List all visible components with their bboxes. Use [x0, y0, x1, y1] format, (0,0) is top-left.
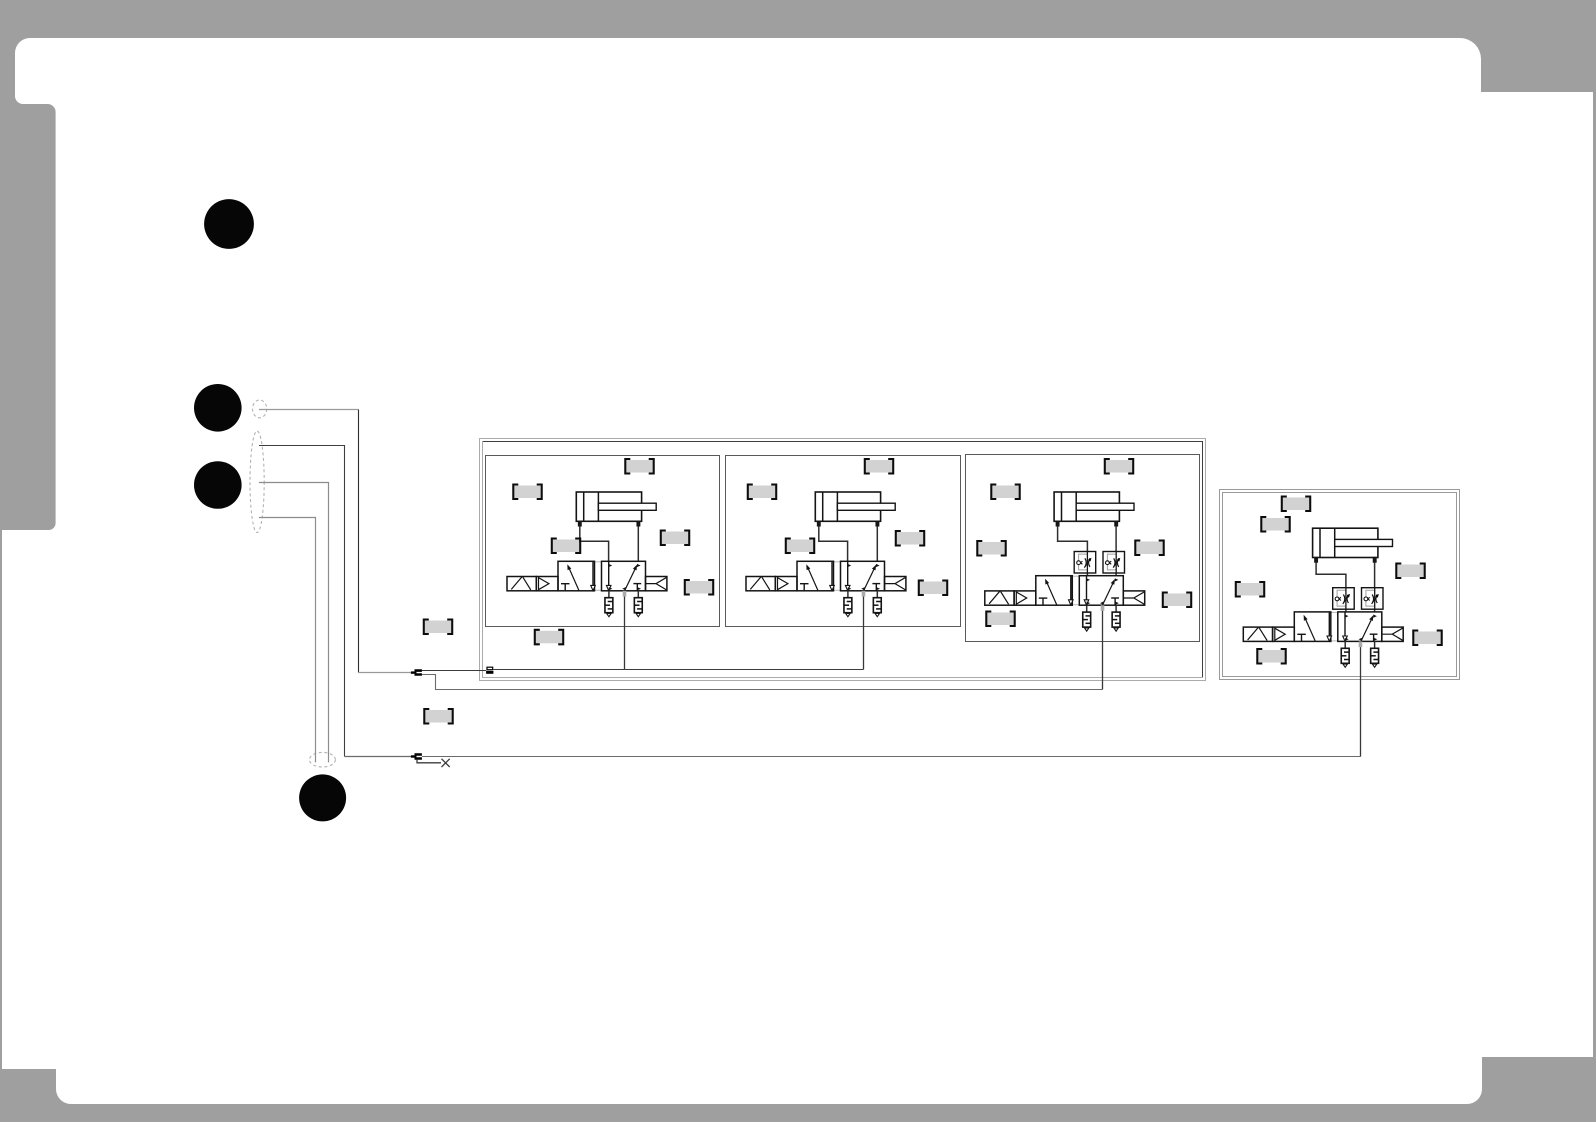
solenoid coil of valve 1 [507, 577, 536, 591]
wire: valve 3 port 5 to silencer [1086, 605, 1088, 612]
label placeholder 1.1 [625, 459, 653, 474]
label placeholder (left of enclosure, lower) [424, 709, 452, 724]
label placeholder 1.5 [685, 580, 713, 595]
connector 1 (coupling) [411, 669, 422, 676]
station box 1 [486, 456, 720, 627]
solenoid coil of valve 2 [746, 577, 775, 591]
label placeholder 1.2 [513, 485, 541, 500]
balloon marker 2 [194, 384, 242, 432]
pilot of valve 1 [536, 577, 558, 591]
supply port stub of valve 3 [1101, 605, 1105, 611]
outer enclosure frame (circuits 1-3), double border outer [480, 439, 1206, 681]
wire: valve 4 port 3 to silencer [1374, 641, 1376, 648]
label placeholder 2.4 [896, 531, 924, 546]
wire: valve 1 port 1 supply drop [624, 597, 626, 670]
one-way flow control valve 3b [1103, 552, 1125, 574]
silencer 1a [605, 598, 613, 617]
wire: valve 3 port 3 to silencer [1115, 605, 1117, 612]
label placeholder 2.1 [865, 459, 893, 474]
silencer 4a [1341, 648, 1349, 667]
wire: cylinder 2 left port to valve port 4 [819, 526, 848, 561]
wire: cylinder 3 left port to valve port 4 [1058, 526, 1088, 576]
return spring of valve 2 [885, 577, 906, 591]
outer enclosure frame (circuits 1-3), double border inner [482, 441, 1203, 678]
wire: cylinder 4 left port to valve port 4 [1316, 562, 1346, 612]
wire: valve 2 port 1 supply drop [863, 597, 865, 670]
enclosure frame (circuit 4), double border outer [1220, 490, 1460, 680]
label placeholder 1.4 [661, 531, 689, 546]
cylinder 2 (double-acting) [815, 492, 895, 526]
label placeholder 1.6 [535, 630, 563, 645]
station box 2 [726, 456, 961, 627]
dashed highlight ellipse (cable bundle, bottom) [309, 752, 335, 767]
label placeholder 3.2 [991, 485, 1019, 500]
wire: valve 2 port 3 to silencer [876, 591, 878, 598]
connector 3 (coupling) [411, 753, 422, 760]
wire: branch from connector 1 to circuit 3 supply [422, 675, 1103, 690]
wire: port A to connector 1 [259, 410, 411, 673]
cylinder 3 (double-acting) [1054, 492, 1134, 526]
wire: cylinder 1 left port to valve port 4 [580, 526, 609, 561]
label placeholder 4.5 [1413, 631, 1441, 646]
pilot of valve 4 [1273, 627, 1295, 641]
cylinder 4 (double-acting) [1313, 528, 1393, 562]
station box 3 [966, 455, 1200, 642]
label placeholder 1.3 [552, 539, 580, 554]
wire: valve 1 port 3 to silencer [637, 591, 639, 598]
wire: connector 3 bus to circuit 4 supply [422, 756, 1361, 758]
pilot of valve 3 [1014, 591, 1036, 605]
silencer 3a [1083, 612, 1091, 631]
label placeholder 3.6 [986, 612, 1014, 627]
label placeholder 4.2 [1261, 517, 1289, 532]
label placeholder 2.5 [919, 581, 947, 596]
silencer 3b [1112, 612, 1120, 631]
label placeholder 4.3 [1396, 564, 1424, 579]
label placeholder 3.1 [1105, 459, 1133, 474]
one-way flow control valve 3a [1074, 552, 1096, 574]
wire: supply bus to circuits 1 and 2 [493, 669, 863, 671]
wire: cylinder 3 right port to valve port 2 [1115, 526, 1117, 576]
supply port stub of valve 2 [862, 591, 866, 597]
solenoid coil of valve 3 [985, 591, 1014, 605]
wire: valve 3 port 1 supply drop [1102, 611, 1104, 690]
wire: port D down to cable bundle [259, 518, 316, 763]
supply port stub of valve 1 [623, 591, 627, 597]
valve 1 (5/2 solenoid pilot valve) [558, 561, 646, 591]
return spring of valve 4 [1382, 627, 1403, 641]
wire: cylinder 1 right port to valve port 2 [637, 526, 639, 561]
one-way flow control valve 4a [1333, 588, 1355, 610]
dashed highlight ellipse (single port) [253, 400, 267, 418]
balloon marker 3 [194, 461, 242, 509]
wire: cylinder 4 right port to valve port 2 [1374, 562, 1376, 612]
solenoid coil of valve 4 [1243, 627, 1272, 641]
one-way flow control valve 4b [1362, 588, 1384, 610]
silencer 4b [1371, 648, 1379, 667]
label placeholder 2.2 [748, 485, 776, 500]
silencer 1b [634, 598, 642, 617]
wire: valve 1 port 5 to silencer [608, 591, 610, 598]
silencer 2b [873, 598, 881, 617]
dashed highlight ellipse (port group, tall) [250, 431, 264, 533]
enclosure frame (circuit 4), double border inner [1223, 493, 1457, 677]
wire: port C down to cable bundle [259, 483, 329, 763]
blanking plug with cross at connector 3 [417, 760, 441, 763]
label placeholder 3.3 [977, 541, 1005, 556]
return spring of valve 1 [646, 577, 667, 591]
wire: cylinder 2 right port to valve port 2 [876, 526, 878, 561]
label placeholder 3.5 [1163, 593, 1191, 608]
label placeholder 4.4 [1236, 582, 1264, 597]
balloon marker 4 [299, 774, 346, 821]
return spring of valve 3 [1123, 591, 1144, 605]
valve 4 (5/2 solenoid pilot valve) [1294, 612, 1382, 642]
wire: port B to connector 3 [259, 446, 411, 757]
connector 2 (coupling at enclosure wall) [486, 667, 493, 674]
label placeholder 2.3 [786, 539, 814, 554]
wire: valve 2 port 5 to silencer [847, 591, 849, 598]
label placeholder 4.6 [1257, 649, 1285, 664]
cylinder 1 (double-acting) [576, 492, 656, 526]
pilot of valve 2 [775, 577, 797, 591]
label placeholder 4.1 [1282, 497, 1310, 512]
valve 3 (5/2 solenoid pilot valve) [1036, 576, 1124, 606]
balloon marker 1 [204, 199, 254, 249]
wire: valve 4 port 5 to silencer [1344, 641, 1346, 648]
wire: valve 4 port 1 supply drop [1360, 647, 1362, 756]
valve 2 (5/2 solenoid pilot valve) [797, 561, 885, 591]
supply port stub of valve 4 [1359, 641, 1363, 647]
label placeholder (left of enclosure, upper) [424, 620, 452, 635]
silencer 2a [844, 598, 852, 617]
label placeholder 3.4 [1135, 541, 1163, 556]
wire: connector 1 to connector 2 [422, 670, 486, 672]
